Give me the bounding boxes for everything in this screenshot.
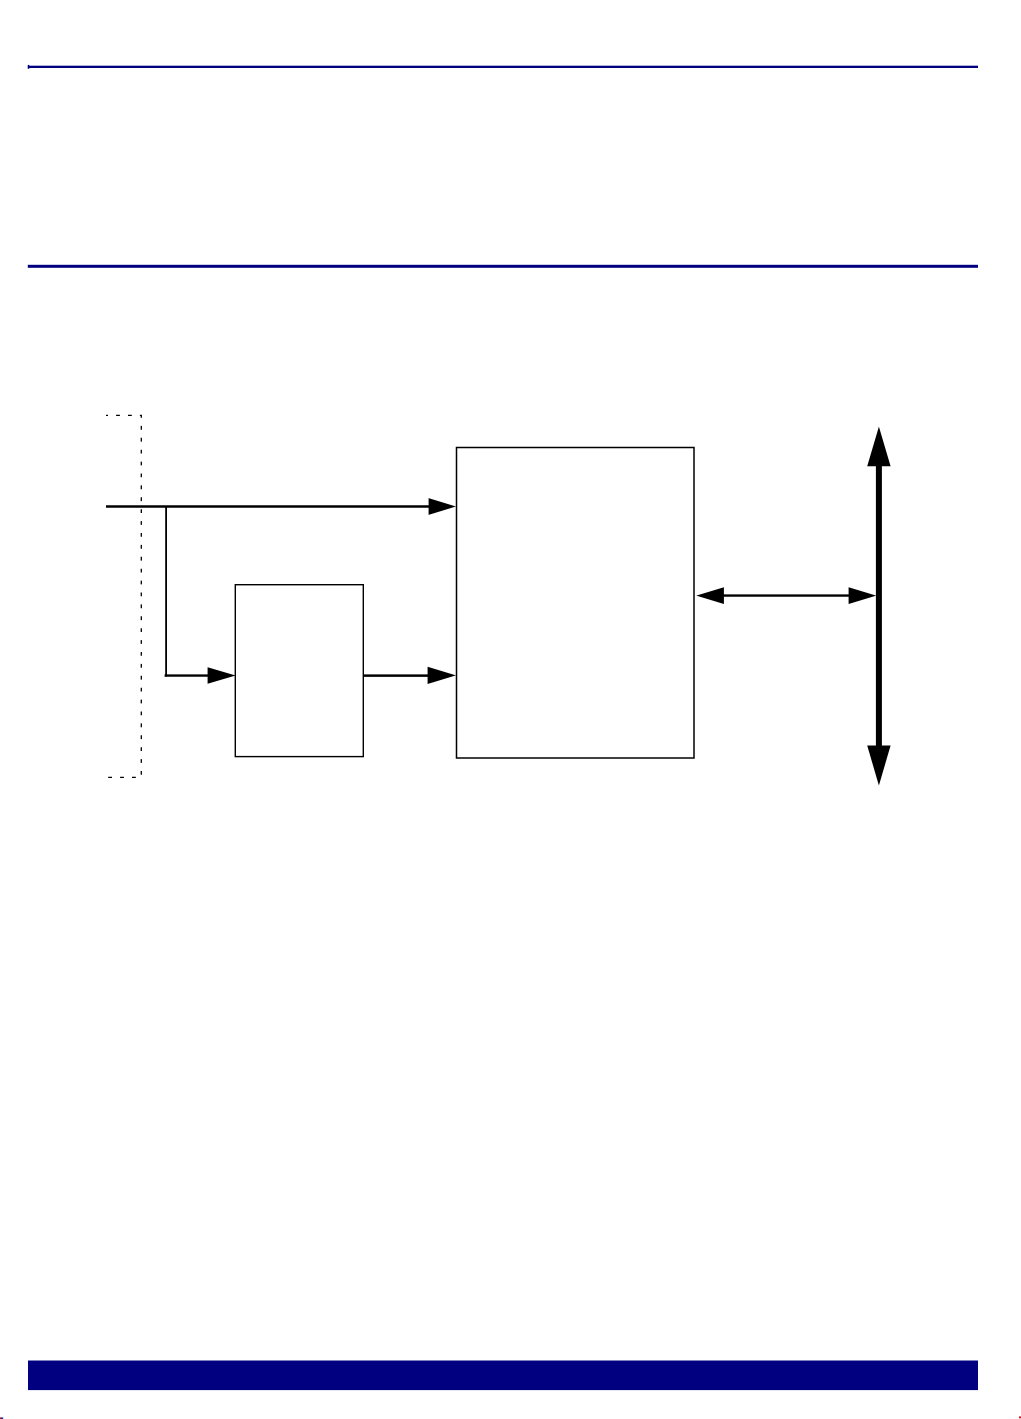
arrowhead into large box (lower wire) — [428, 667, 456, 684]
header rule bottom — [28, 265, 978, 268]
large box — [457, 448, 695, 759]
wire: branch down vertical — [165, 507, 167, 677]
arrowhead left (into large box) — [696, 587, 724, 604]
arrowhead right (into bus) — [849, 587, 877, 604]
corner mark bottom-left black — [0, 1417, 3, 1419]
header rule top left cap — [28, 65, 30, 69]
small box — [235, 585, 363, 757]
bus vertical line — [876, 461, 882, 750]
bus arrowhead up — [867, 427, 890, 467]
footer bar — [28, 1361, 978, 1391]
corner mark bottom-left red — [0, 1417, 1, 1419]
corner mark bottom-left blue — [2, 1417, 3, 1419]
arrowhead into large box (top wire) — [429, 498, 456, 515]
corner mark bottom-right red — [1019, 1416, 1021, 1418]
wire: input to large box — [106, 505, 429, 508]
header rule top — [28, 66, 978, 68]
wire: branch horizontal — [165, 674, 209, 676]
arrowhead into small box — [208, 667, 236, 683]
wire: bidirectional bus link — [722, 594, 850, 596]
dashed box (left edge open) — [106, 415, 141, 777]
wire: small box to large box — [364, 674, 429, 677]
bus arrowhead down — [867, 746, 890, 786]
